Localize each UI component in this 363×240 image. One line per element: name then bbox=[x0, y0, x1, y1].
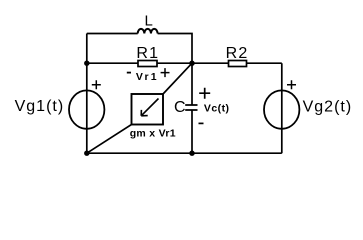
svg-text:Vc(t): Vc(t) bbox=[204, 103, 230, 115]
svg-text:Vg1(t): Vg1(t) bbox=[15, 98, 65, 115]
svg-text:R1: R1 bbox=[136, 45, 159, 62]
svg-text:L: L bbox=[145, 13, 153, 30]
svg-text:Vg2(t): Vg2(t) bbox=[303, 98, 353, 115]
svg-text:gm x Vr1: gm x Vr1 bbox=[130, 128, 176, 140]
svg-text:R2: R2 bbox=[226, 45, 249, 62]
svg-text:C: C bbox=[174, 99, 186, 116]
svg-text:Vr1: Vr1 bbox=[136, 71, 159, 83]
